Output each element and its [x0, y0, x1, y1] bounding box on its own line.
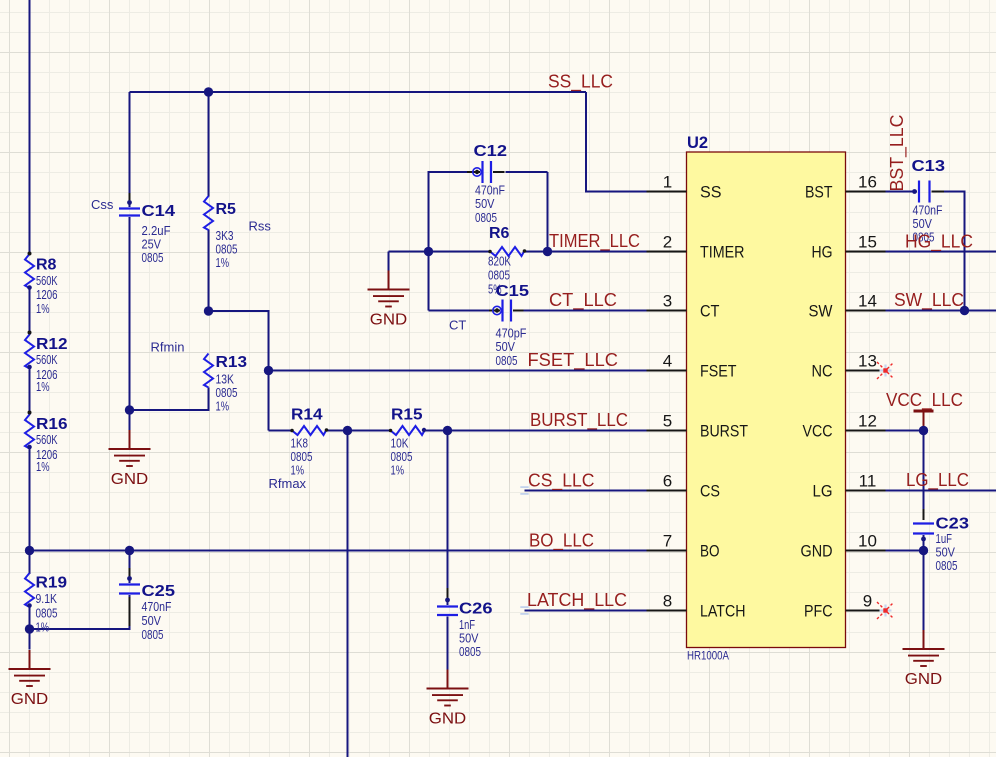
U2 pin number 1 [663, 173, 672, 192]
svg-text:R5: R5 [216, 201, 237, 218]
svg-text:3: 3 [663, 292, 672, 311]
U2 pin 4 lead [647, 370, 687, 372]
R8 designator [36, 257, 57, 274]
resistor R6 [488, 247, 526, 256]
wire C12 loop left vertical [428, 171, 430, 311]
U2 pin 1 lead [647, 191, 687, 193]
svg-text:VCC: VCC [803, 422, 833, 441]
net label TIMER_LLC [549, 231, 640, 252]
svg-text:7: 7 [663, 532, 672, 551]
U2 pin number 15 [858, 233, 877, 252]
wire LATCH_LLC stub to pin 8 [525, 610, 648, 612]
svg-text:R6: R6 [489, 225, 510, 242]
wire R19 node to GND [29, 629, 31, 650]
wire C25 bottom to R19 [30, 595, 130, 629]
U2 pin name TIMER [700, 243, 745, 262]
svg-text:GND: GND [111, 471, 149, 488]
svg-text:CS_LLC: CS_LLC [528, 471, 595, 492]
svg-text:C25: C25 [142, 583, 176, 600]
junction node VCC / C23 [919, 426, 928, 435]
svg-text:11: 11 [859, 472, 877, 491]
net label HG_LLC [905, 232, 973, 253]
resistor R16 [25, 411, 34, 450]
svg-text:0805: 0805 [459, 644, 481, 659]
U2 pin 2 lead [647, 251, 687, 253]
svg-text:R12: R12 [36, 336, 68, 353]
net label BO_LLC [529, 531, 594, 552]
svg-text:CT: CT [700, 302, 720, 321]
R15 designator [391, 407, 423, 424]
C26 designator [459, 601, 493, 618]
svg-text:HR1000A: HR1000A [687, 651, 729, 663]
no-connect X on pin 9 PFC [877, 602, 894, 619]
svg-text:0805: 0805 [142, 627, 164, 642]
svg-text:FSET_LLC: FSET_LLC [528, 350, 619, 371]
junction node R5 / R13 [204, 306, 213, 315]
U2 pin number 2 [663, 233, 672, 252]
C15 designator [496, 283, 530, 300]
C14 value 2.2uF 25V 0805 [142, 223, 171, 265]
label Rfmax [269, 476, 307, 491]
svg-text:BURST_LLC: BURST_LLC [530, 410, 628, 431]
svg-text:16: 16 [858, 173, 877, 192]
svg-text:15: 15 [858, 233, 877, 252]
label Css [91, 197, 114, 212]
svg-text:HG: HG [812, 243, 833, 262]
junction node R15 / C26 / BURST [443, 426, 452, 435]
svg-text:R8: R8 [36, 257, 57, 274]
wire C12 loop top right segment [506, 171, 548, 173]
svg-text:1%: 1% [216, 255, 230, 270]
svg-text:PFC: PFC [804, 602, 833, 621]
wire CT row left segment [429, 310, 492, 312]
R13 value 13K 0805 1% [216, 372, 238, 414]
svg-text:SS: SS [700, 183, 722, 202]
svg-text:4: 4 [663, 352, 672, 371]
svg-text:560K: 560K [36, 273, 58, 288]
U2 pin name BST [805, 183, 833, 202]
U2 pin number 10 [858, 532, 877, 551]
resistor R8 [25, 252, 34, 290]
svg-text:CS: CS [700, 482, 720, 501]
open wire end mark (LATCH stub) [520, 607, 528, 614]
open wire end mark (CS stub) [520, 487, 528, 494]
junction node R14 / R15 / vertical [343, 426, 352, 435]
svg-text:1: 1 [663, 173, 672, 192]
R19 designator [36, 575, 68, 592]
R19 value 9.1K 0805 1% [36, 591, 58, 635]
U2 pin 9 lead [846, 610, 886, 612]
wire C14 top lead from SS net [129, 92, 131, 207]
svg-text:560K: 560K [36, 432, 58, 447]
U2 pin 10 lead [846, 550, 886, 552]
label Rfmin [151, 340, 185, 355]
label CT [449, 318, 466, 333]
U2 pin name SW [809, 302, 833, 321]
ground GND (C23) [903, 630, 945, 688]
U2 pin 12 lead [846, 430, 886, 432]
wire SW_LLC to right edge [885, 310, 996, 312]
junction node R19 / C25 bottom [25, 624, 34, 633]
svg-text:50V: 50V [475, 196, 495, 211]
R6 designator [489, 225, 510, 242]
svg-text:1%: 1% [216, 399, 230, 414]
net label BURST_LLC [530, 410, 628, 431]
capacitor C25 [119, 568, 140, 626]
svg-text:10: 10 [858, 532, 877, 551]
U2 pin number 11 [859, 472, 877, 491]
svg-text:R16: R16 [36, 416, 68, 433]
U2 pin number 5 [663, 412, 672, 431]
R6 value 820K 0805 5% [488, 254, 511, 297]
svg-text:LATCH: LATCH [700, 602, 746, 621]
C23 value 1uF 50V 0805 [936, 531, 958, 573]
svg-text:470nF: 470nF [142, 599, 172, 614]
wire BST pin to C13 [885, 191, 918, 193]
junction node TIMER right (C12 loop) [543, 247, 552, 256]
svg-text:LG: LG [813, 482, 833, 501]
R12 designator [36, 336, 68, 353]
wire C23 node down to GND symbol [923, 551, 925, 631]
U2 pin name FSET [700, 362, 737, 381]
svg-text:0805: 0805 [36, 606, 58, 621]
svg-text:0805: 0805 [142, 250, 164, 265]
capacitor C12 [467, 161, 505, 183]
net label VCC_LLC [886, 390, 963, 411]
wire R15 node down to C26 [447, 431, 449, 606]
capacitor C13 [912, 181, 944, 203]
wire SS net to pin 1 [586, 92, 648, 192]
wire BO_LLC long horizontal [30, 550, 648, 552]
wire VCC pin to power node [885, 430, 924, 432]
wire CT row right to pin 3 [524, 310, 648, 312]
svg-text:BO_LLC: BO_LLC [529, 531, 594, 552]
junction node SW / C13 loop [960, 306, 969, 315]
U2 pin name PFC [804, 602, 833, 621]
R8 value 560K 1206 1% [36, 273, 58, 316]
svg-text:SW: SW [809, 302, 833, 321]
svg-text:SS_LLC: SS_LLC [548, 72, 613, 93]
junction node SS_LLC / R5 top [204, 87, 213, 96]
svg-text:BST_LLC: BST_LLC [887, 115, 908, 192]
svg-text:BO: BO [700, 542, 720, 561]
svg-text:9: 9 [863, 592, 872, 611]
U2 pin 7 lead [647, 550, 687, 552]
wire vertical from R14/R15 node to bottom edge [347, 431, 349, 758]
U2 pin name GND [801, 542, 833, 561]
svg-text:0805: 0805 [496, 353, 518, 368]
svg-text:TIMER: TIMER [700, 243, 745, 262]
svg-text:8: 8 [663, 592, 672, 611]
capacitor C23 [913, 509, 934, 541]
wire R19 bottom lead [29, 607, 31, 630]
svg-text:Rss: Rss [249, 219, 272, 234]
svg-text:R19: R19 [36, 575, 68, 592]
ground GND (C14/Rfmin) [109, 430, 151, 488]
svg-text:R13: R13 [216, 354, 248, 371]
wire C26 bottom lead [447, 617, 449, 671]
U2 pin name CS [700, 482, 720, 501]
U2 pin name CT [700, 302, 720, 321]
U2 pin number 4 [663, 352, 672, 371]
R5 value 3K3 0805 1% [216, 228, 238, 270]
net label SS_LLC [548, 72, 613, 93]
svg-text:C23: C23 [936, 516, 970, 533]
U2 pin name BO [700, 542, 720, 561]
U2 pin number 6 [663, 472, 672, 491]
wire R6 right to TIMER pin 2 [524, 251, 648, 253]
svg-text:CT: CT [449, 318, 466, 333]
svg-text:GND: GND [905, 671, 943, 688]
net label LG_LLC [906, 470, 969, 491]
svg-text:13: 13 [858, 352, 877, 371]
wire LG_LLC to right edge [885, 490, 996, 492]
svg-text:1%: 1% [36, 301, 50, 316]
svg-text:1%: 1% [36, 620, 50, 635]
wire left rail R16 to BO node [29, 448, 31, 574]
wire rail R8-R12 [29, 288, 31, 336]
svg-text:FSET: FSET [700, 362, 737, 381]
svg-text:LG_LLC: LG_LLC [906, 470, 969, 491]
net label CT_LLC [549, 290, 617, 311]
R14 value 1K8 0805 1% [291, 436, 313, 478]
C15 value 470pF 50V 0805 [496, 326, 527, 369]
U2 pin number 16 [858, 173, 877, 192]
C23 designator [936, 516, 970, 533]
svg-text:14: 14 [858, 292, 877, 311]
power port VCC_LLC bar [914, 411, 934, 429]
svg-text:TIMER_LLC: TIMER_LLC [549, 231, 640, 252]
svg-text:CT_LLC: CT_LLC [549, 290, 617, 311]
capacitor C14 [119, 193, 140, 216]
wire SS_LLC horizontal top [130, 91, 587, 93]
svg-text:LATCH_LLC: LATCH_LLC [527, 590, 627, 611]
svg-text:C26: C26 [459, 601, 493, 618]
svg-text:R14: R14 [291, 407, 323, 424]
wire C13 right loop to SW [932, 192, 965, 311]
svg-text:0805: 0805 [475, 210, 497, 225]
U2 pin 6 lead [647, 490, 687, 492]
svg-text:820K: 820K [488, 254, 511, 269]
svg-text:Rfmax: Rfmax [269, 476, 307, 491]
svg-text:GND: GND [801, 542, 833, 561]
U2 pin number 9 [863, 592, 872, 611]
svg-text:12: 12 [858, 412, 877, 431]
net label LATCH_LLC [527, 590, 627, 611]
net label BST_LLC (vertical) [887, 115, 908, 192]
svg-text:Rfmin: Rfmin [151, 340, 185, 355]
wire rail R12-R16 [29, 368, 31, 415]
C13 value 470nF 50V 0805 [913, 203, 943, 245]
R14 designator [291, 407, 323, 424]
R12 value 560K 1206 1% [36, 352, 58, 394]
C25 value 470nF 50V 0805 [142, 599, 172, 642]
R13 designator [216, 354, 248, 371]
U2 pin number 14 [858, 292, 877, 311]
resistor R19 [25, 573, 34, 608]
op-amp U2 body (HR1000A controller) [687, 152, 846, 648]
U2 pin name HG [812, 243, 833, 262]
capacitor C26 [437, 588, 458, 615]
resistor R12 [25, 331, 34, 370]
R15 value 10K 0805 1% [391, 436, 413, 478]
wire C12 loop right vertical [547, 172, 549, 252]
U2 pin 14 lead [846, 310, 886, 312]
wire R14-R15 link [326, 430, 391, 432]
junction node BO / left rail [25, 546, 34, 555]
resistor R5 [204, 196, 213, 230]
wire TIMER row left (GND branch to R6) [389, 251, 491, 253]
wire R14 left lead [269, 430, 293, 432]
C26 value 1nF 50V 0805 [459, 617, 481, 659]
svg-text:C12: C12 [474, 143, 508, 160]
no-connect X on pin 13 NC [877, 362, 894, 379]
U2 pin name NC [812, 362, 833, 381]
resistor R14 [290, 426, 328, 435]
net label CS_LLC [528, 471, 595, 492]
svg-text:560K: 560K [36, 352, 58, 367]
svg-text:1%: 1% [391, 463, 405, 478]
ground GND (left rail R19) [9, 650, 51, 708]
wire left rail x=30 top segment [29, 0, 31, 255]
wire GND branch of TIMER node [388, 252, 390, 271]
svg-text:1%: 1% [36, 379, 50, 394]
resistor R15 [389, 426, 426, 435]
wire HG_LLC to right edge [885, 251, 996, 253]
wire CS_LLC stub to pin 6 [525, 490, 648, 492]
svg-text:GND: GND [11, 691, 49, 708]
junction node FSET branch [264, 366, 273, 375]
U2 pin 13 lead [846, 370, 886, 372]
U2 pin number 13 [858, 352, 877, 371]
svg-text:C13: C13 [912, 158, 946, 175]
U2 pin name LG [813, 482, 833, 501]
wire node R5/R13 to FSET column [209, 311, 269, 431]
wire C14 bottom to GND junction [129, 217, 131, 430]
U2 pin number 3 [663, 292, 672, 311]
U2 pin number 12 [858, 412, 877, 431]
svg-text:Css: Css [91, 197, 114, 212]
svg-text:6: 6 [663, 472, 672, 491]
svg-text:HG_LLC: HG_LLC [905, 232, 973, 253]
svg-text:VCC_LLC: VCC_LLC [886, 390, 963, 411]
U2 pin 3 lead [647, 310, 687, 312]
U2 pin number 8 [663, 592, 672, 611]
U2 pin name SS [700, 183, 722, 202]
svg-text:R15: R15 [391, 407, 423, 424]
ground GND (C26) [427, 670, 469, 728]
svg-text:BURST: BURST [700, 422, 748, 441]
R5 designator [216, 201, 237, 218]
svg-text:U2: U2 [687, 134, 708, 152]
ground GND (TIMER filter) [368, 271, 410, 329]
junction node C14 / R13 / GND [125, 405, 134, 414]
svg-text:GND: GND [370, 312, 408, 329]
U2 pin 11 lead [846, 490, 886, 492]
C12 designator [474, 143, 508, 160]
wire C12 loop top left segment [429, 171, 471, 173]
resistor R13 [204, 354, 213, 388]
svg-text:50V: 50V [142, 613, 162, 628]
wire R5 bottom to node [208, 230, 210, 312]
U2 pin 5 lead [647, 430, 687, 432]
net label SW_LLC [894, 290, 964, 311]
svg-text:0805: 0805 [488, 268, 510, 283]
svg-text:GND: GND [429, 711, 467, 728]
wire C23 bottom to GND pin node [923, 535, 925, 551]
U2 designator [687, 134, 708, 152]
wire R5 top lead [208, 92, 210, 197]
C13 designator [912, 158, 946, 175]
svg-text:2: 2 [663, 233, 672, 252]
junction node BO / C25 [125, 546, 134, 555]
R16 designator [36, 416, 68, 433]
wire FSET_LLC to pin 4 [269, 370, 648, 372]
svg-text:C14: C14 [142, 203, 176, 220]
U2 pin 15 lead [846, 251, 886, 253]
svg-text:1206: 1206 [36, 287, 58, 302]
svg-text:C15: C15 [496, 283, 530, 300]
wire VCC node down to C23 [923, 431, 925, 520]
wire R13 bottom to C14 column [130, 388, 209, 411]
capacitor C15 [489, 300, 524, 322]
junction node GND pin / C23 [919, 546, 928, 555]
U2 part number HR1000A [687, 651, 729, 663]
svg-text:NC: NC [812, 362, 833, 381]
junction node TIMER left (C12 loop) [424, 247, 433, 256]
svg-text:9.1K: 9.1K [36, 591, 58, 606]
net label FSET_LLC [528, 350, 619, 371]
label Rss [249, 219, 272, 234]
C12 value 470nF 50V 0805 [475, 183, 505, 226]
svg-text:50V: 50V [496, 339, 516, 354]
svg-text:BST: BST [805, 183, 833, 202]
U2 pin number 7 [663, 532, 672, 551]
C14 designator [142, 203, 176, 220]
wire C25 top lead [129, 551, 131, 584]
wire GND pin 10 to node [885, 550, 924, 552]
svg-text:1%: 1% [36, 459, 50, 474]
wire R15 to BURST pin 5 [425, 430, 648, 432]
svg-text:0805: 0805 [936, 558, 958, 573]
U2 pin name BURST [700, 422, 748, 441]
U2 pin name LATCH [700, 602, 746, 621]
U2 pin 8 lead [647, 610, 687, 612]
svg-text:5: 5 [663, 412, 672, 431]
U2 pin name VCC [803, 422, 833, 441]
C25 designator [142, 583, 176, 600]
U2 pin 16 lead [846, 191, 886, 193]
svg-text:SW_LLC: SW_LLC [894, 290, 964, 311]
R16 value 560K 1206 1% [36, 432, 58, 474]
